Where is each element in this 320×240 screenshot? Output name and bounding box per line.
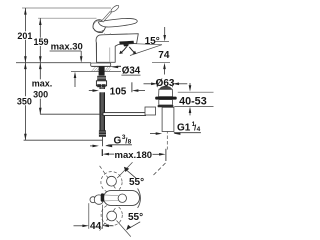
plan view: radial dashed lines <box>99 164 123 198</box>
dimension line 201/350 at x=25.4 <box>24 8 26 140</box>
pipe threaded tip <box>99 130 106 137</box>
lever stick <box>102 12 112 22</box>
supply pipe <box>100 87 105 130</box>
dim 74 <box>155 40 170 42</box>
55deg arrow top <box>117 162 132 178</box>
G1 1/4 arrows <box>150 133 157 135</box>
counter hatch right <box>105 67 111 72</box>
arrows at counter level x=25.4 <box>24 56 27 62</box>
counter bottom line <box>71 71 121 73</box>
escutcheon <box>91 63 111 66</box>
svg-text:max.180: max.180 <box>115 150 153 161</box>
arrows at counter level x=40.3 <box>39 56 42 62</box>
pop-up waste plug dome <box>159 86 172 89</box>
mounting nut <box>97 76 106 81</box>
svg-text:4: 4 <box>197 126 201 133</box>
waste lip dark <box>158 105 174 107</box>
plan view: lever bar dark <box>101 193 105 201</box>
svg-text:350: 350 <box>17 96 32 106</box>
waste body <box>159 100 173 105</box>
body inner line <box>109 48 111 62</box>
svg-text:G1: G1 <box>177 123 191 134</box>
pop-up rod <box>131 82 133 92</box>
label O63 with arrows <box>157 81 159 87</box>
svg-text:44: 44 <box>90 221 102 232</box>
G3/8 arrows <box>90 145 94 147</box>
hose connection block <box>96 81 106 86</box>
dim 44 <box>88 203 90 229</box>
tailpipe <box>162 107 174 131</box>
dim max.180 <box>101 149 103 156</box>
svg-text:159: 159 <box>33 37 48 47</box>
counter top line <box>16 62 91 64</box>
label 105 with arrows <box>99 89 106 92</box>
dim 40-53 <box>178 91 214 93</box>
plan view: pivot circle <box>118 194 126 202</box>
15 degree legs <box>134 44 163 45</box>
cartridge head <box>93 20 105 33</box>
arrow max300 bottom <box>39 108 42 114</box>
sweep arc right of capsule <box>138 189 141 208</box>
spout underside / aerator <box>119 41 134 45</box>
counter hatch left <box>92 67 99 72</box>
knob circle top <box>107 176 117 186</box>
dashed trace from drain <box>153 163 166 176</box>
arrow 159 top <box>39 19 42 25</box>
lever knob <box>110 4 120 13</box>
knob circle bottom <box>107 211 117 221</box>
svg-text:105: 105 <box>110 86 127 97</box>
svg-text:max.: max. <box>32 78 53 88</box>
svg-text:300: 300 <box>33 90 48 100</box>
handle paddle <box>98 18 137 27</box>
plan view: dashed knob circle bottom <box>101 204 122 225</box>
plan view: dashed knob circle top <box>101 172 122 193</box>
label O34 with leader <box>117 65 122 67</box>
drain centerline <box>166 108 168 150</box>
55deg arrow bottom <box>117 221 131 237</box>
svg-text:201: 201 <box>17 31 32 41</box>
dimension line 159/max300 at x=40.3 <box>39 18 41 114</box>
reference line (handle height 159) <box>38 17 97 19</box>
faucet body outline <box>96 34 138 63</box>
350 extent line <box>24 139 103 141</box>
svg-text:55°: 55° <box>129 177 144 188</box>
arrow 350 bottom <box>24 134 27 140</box>
svg-text:74: 74 <box>158 50 170 61</box>
linkage boss <box>145 107 156 115</box>
max300 extent line / linkage <box>40 113 103 115</box>
reference line top (lever height 201) <box>22 7 111 9</box>
waste seal flange dark <box>155 97 177 100</box>
arrow 201 top <box>24 8 27 14</box>
plan view: faucet body capsule <box>90 197 96 203</box>
water flow arrows <box>121 47 127 53</box>
svg-text:55°: 55° <box>128 212 143 223</box>
faucet shank dark <box>99 66 105 75</box>
plug cylinder <box>159 89 173 96</box>
svg-text:40-53: 40-53 <box>179 95 207 107</box>
